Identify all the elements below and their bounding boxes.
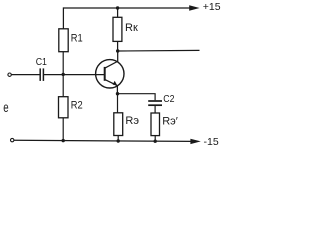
arrow +15 <box>189 5 199 10</box>
svg-text:R2: R2 <box>71 100 83 112</box>
wire Rk top lead <box>117 8 119 17</box>
label Re2 <box>162 116 178 128</box>
wire output <box>118 49 200 52</box>
wire emitter to C2 <box>118 94 156 101</box>
label -15 <box>204 136 219 148</box>
resistor Rk <box>113 17 122 41</box>
svg-text:Rк: Rк <box>125 22 138 34</box>
label C2 <box>163 93 174 105</box>
wire input to C1 <box>11 74 39 76</box>
transistor Q1 <box>96 52 124 94</box>
ground terminal <box>11 138 14 141</box>
node emitter junction <box>116 92 119 95</box>
svg-text:+15: +15 <box>203 1 221 13</box>
node Re bottom junction <box>117 139 120 142</box>
capacitor C1 <box>40 68 43 81</box>
svg-text:C1: C1 <box>36 55 47 67</box>
node collector output junction <box>116 49 119 52</box>
resistor Re <box>114 113 123 136</box>
label C1 <box>36 55 47 67</box>
node R2 bottom junction <box>62 139 65 142</box>
resistor R1 <box>59 29 68 52</box>
svg-text:e: e <box>3 101 9 116</box>
label Rk <box>125 22 138 34</box>
input terminal <box>8 73 11 76</box>
label R1 <box>71 33 83 45</box>
wire Re bottom lead <box>117 136 119 142</box>
resistor Re2 <box>151 113 160 136</box>
svg-text:C2: C2 <box>163 93 174 105</box>
node top rail Rk junction <box>116 6 119 9</box>
arrow -15 <box>190 139 200 144</box>
resistor R2 <box>59 97 69 118</box>
wire C1 to base <box>44 74 105 76</box>
svg-text:Rэ′: Rэ′ <box>162 116 178 128</box>
wire R1 top lead <box>62 7 64 28</box>
svg-text:-15: -15 <box>204 136 219 148</box>
wire R1 bottom to R2 top <box>62 52 64 97</box>
capacitor C2 <box>148 101 162 105</box>
wire Rk bottom lead <box>117 41 119 51</box>
label R2 <box>71 100 83 112</box>
node Re2 bottom junction <box>154 140 157 143</box>
wire C2 to Re2 <box>154 106 156 113</box>
node base divider junction <box>62 73 65 76</box>
label e (input signal) <box>3 101 9 116</box>
svg-text:Rэ: Rэ <box>125 115 139 127</box>
wire R2 bottom lead <box>62 118 64 141</box>
svg-text:R1: R1 <box>71 33 83 45</box>
wire top rail <box>63 7 191 9</box>
wire bottom rail <box>14 140 192 141</box>
wire Re2 bottom lead <box>154 136 156 142</box>
label Re <box>125 115 139 127</box>
wire emitter to Re <box>117 94 119 113</box>
label +15 <box>203 1 221 13</box>
